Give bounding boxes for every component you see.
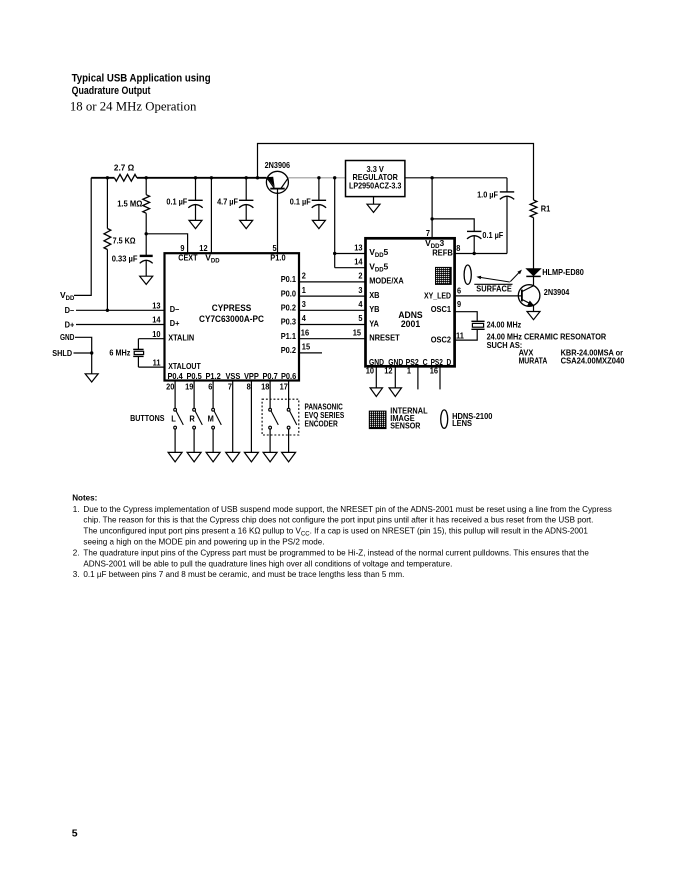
svg-text:16: 16 — [430, 366, 439, 376]
resistor R 7.5 Kohm — [106, 178, 108, 229]
svg-text:4: 4 — [358, 299, 362, 309]
svg-text:3: 3 — [302, 299, 306, 309]
wire LED cathode to 2N3904 collector — [533, 276, 535, 285]
svg-text:6: 6 — [457, 285, 461, 295]
svg-text:NRESET: NRESET — [369, 333, 400, 343]
svg-text:SENSOR: SENSOR — [390, 420, 420, 430]
capacitor C 0.1 uF (left) — [195, 178, 197, 200]
wire 5V rail left segment — [91, 177, 114, 179]
svg-text:BUTTONS: BUTTONS — [130, 413, 165, 423]
svg-text:12: 12 — [384, 366, 393, 376]
ground below 0.33uF — [140, 276, 153, 284]
svg-text:P0.6: P0.6 — [281, 371, 297, 381]
ground below VPP — [244, 452, 258, 462]
svg-text:16: 16 — [301, 327, 310, 337]
svg-text:MURATA: MURATA — [519, 356, 548, 366]
svg-text:XB: XB — [369, 290, 379, 300]
svg-text:20: 20 — [166, 381, 175, 391]
junction D- / 7.5K — [106, 309, 109, 312]
junction 3.3V line / 0.1uF — [317, 176, 320, 179]
svg-text:ADNS-2001 will be able to pull: ADNS-2001 will be able to pull the quadr… — [83, 559, 452, 568]
svg-text:D–: D– — [65, 305, 75, 315]
svg-text:14: 14 — [354, 257, 363, 267]
transistor Q 2N3904 — [518, 285, 540, 307]
svg-text:4.7 µF: 4.7 µF — [217, 197, 238, 207]
svg-text:13: 13 — [354, 242, 363, 252]
svg-text:0.33 µF: 0.33 µF — [112, 253, 138, 263]
svg-text:5: 5 — [72, 827, 78, 839]
svg-text:1: 1 — [302, 285, 306, 295]
svg-text:CY7C63000A-PC: CY7C63000A-PC — [199, 313, 264, 324]
svg-text:YA: YA — [369, 318, 379, 328]
wire P0.2 stub pin 15 — [299, 352, 322, 354]
svg-text:LENS: LENS — [452, 418, 472, 428]
svg-text:18 or 24 MHz Operation: 18 or 24 MHz Operation — [70, 100, 196, 114]
junction rail / 4.7uF — [245, 176, 248, 179]
svg-text:2N3904: 2N3904 — [544, 287, 570, 297]
LED D HLMP-ED80 — [526, 269, 540, 276]
encoder dashed box — [262, 399, 299, 435]
svg-text:CSA24.00MXZ040: CSA24.00MXZ040 — [561, 356, 625, 366]
crystal Y 6 MHz — [137, 339, 139, 350]
wire regulator 3.3V output — [405, 177, 507, 179]
wire 5V rail right segment — [137, 177, 267, 179]
resistor R 1.5 Mohm — [145, 178, 147, 195]
svg-text:P1.0: P1.0 — [270, 252, 286, 262]
ground below 0.1uF left — [189, 220, 202, 228]
svg-text:MODE/XA: MODE/XA — [369, 276, 404, 286]
svg-text:Typical USB Application using: Typical USB Application using — [72, 73, 211, 85]
capacitor C 1.0 uF — [506, 178, 508, 192]
svg-text:VPP: VPP — [244, 371, 259, 381]
svg-text:1.5 MΩ: 1.5 MΩ — [117, 198, 142, 208]
wire GND — [75, 337, 92, 374]
regulator U 3.3V LP2950ACZ-3.3 — [346, 161, 405, 197]
wire REFB pin 8 — [455, 253, 507, 255]
svg-text:8: 8 — [456, 243, 460, 253]
svg-text:D–: D– — [170, 304, 180, 314]
ground below GND SHLD — [85, 374, 98, 382]
svg-text:P0.2: P0.2 — [281, 303, 297, 313]
surface label with overline — [474, 283, 512, 285]
svg-text:XTALIN: XTALIN — [168, 332, 194, 342]
svg-text:7: 7 — [228, 381, 232, 391]
junction 3.3V line / VDD5 branch — [333, 176, 336, 179]
svg-text:L: L — [171, 413, 176, 423]
svg-text:LP2950ACZ-3.3: LP2950ACZ-3.3 — [349, 181, 402, 191]
svg-text:P0.1: P0.1 — [281, 274, 297, 284]
junction rail / 1.5M — [145, 176, 148, 179]
svg-text:11: 11 — [153, 357, 161, 367]
svg-text:P1.1: P1.1 — [281, 331, 297, 341]
svg-text:9: 9 — [457, 299, 461, 309]
svg-text:OSC2: OSC2 — [431, 334, 452, 344]
wire P1.1 to NRESET — [299, 338, 366, 340]
wire VDD pin 12 — [210, 178, 212, 253]
svg-text:18: 18 — [261, 381, 270, 391]
svg-text:P0.5: P0.5 — [186, 371, 202, 381]
arrow to surface oval — [481, 278, 510, 283]
svg-text:2001: 2001 — [401, 318, 420, 329]
junction rail / 0.1uF — [194, 176, 197, 179]
wire XY_LED pin 6 to 2N3904 base — [455, 295, 522, 297]
junction GND / SHLD — [90, 351, 93, 354]
ground below VSS — [226, 452, 240, 462]
ceramic resonator 24.00 MHz — [471, 320, 484, 322]
svg-text:17: 17 — [280, 381, 289, 391]
wire regulator ground stub — [373, 197, 375, 205]
svg-text:XTALOUT: XTALOUT — [168, 361, 201, 371]
ground below adns pin 12 — [389, 388, 401, 397]
svg-text:14: 14 — [152, 315, 161, 325]
junction node 1.5M / 0.33uF — [145, 232, 148, 235]
ground below 4.7uF — [240, 220, 253, 228]
wire adns GND pin 12 — [394, 366, 396, 388]
legend lens HDNS-2100 — [441, 410, 448, 428]
capacitor C 0.1 uF (REFB) — [467, 230, 481, 232]
wire D- — [76, 309, 165, 311]
junction 3.3V / pin 7 line — [430, 176, 433, 179]
svg-text:D+: D+ — [65, 319, 75, 329]
svg-text:5: 5 — [358, 313, 362, 323]
lens surface oval — [464, 265, 471, 284]
wire node to CEXT pin 9 — [146, 234, 187, 253]
svg-text:8: 8 — [247, 381, 251, 391]
svg-text:10: 10 — [366, 366, 375, 376]
svg-text:XY_LED: XY_LED — [424, 290, 451, 300]
svg-text:P0.0: P0.0 — [281, 288, 297, 298]
legend internal image sensor icon — [369, 411, 387, 430]
junction rail / 7.5K — [106, 176, 109, 179]
svg-text:VSS: VSS — [225, 371, 240, 381]
svg-text:2.: 2. — [73, 548, 80, 557]
wire XTALOUT pin 11 — [138, 366, 164, 368]
wire VDD feed — [74, 178, 91, 296]
wire R1 to LED — [533, 218, 535, 269]
wire adns PS2_D pin 16 — [439, 366, 441, 389]
junction rail / VDD pin 12 — [210, 176, 213, 179]
svg-text:CYPRESS: CYPRESS — [212, 302, 251, 313]
svg-text:HLMP-ED80: HLMP-ED80 — [542, 267, 584, 277]
svg-text:7.5 KΩ: 7.5 KΩ — [113, 236, 136, 246]
ground below 0.1uF transistor — [312, 220, 325, 228]
wire P0.2 to YB — [299, 309, 366, 311]
wire P0.3 to YA — [299, 324, 366, 326]
wire adns GND pin 10 — [375, 366, 377, 388]
svg-text:6 MHz: 6 MHz — [109, 348, 130, 358]
capacitor C 4.7 uF — [245, 178, 247, 200]
svg-text:4: 4 — [302, 313, 306, 323]
svg-text:0.1 µF between pins 7 and 8 mu: 0.1 µF between pins 7 and 8 must be cera… — [83, 570, 404, 579]
svg-text:SURFACE: SURFACE — [476, 284, 512, 294]
switch on P0.6 encoder — [288, 381, 290, 409]
svg-text:The quadrature input pins of t: The quadrature input pins of the Cypress… — [83, 548, 589, 557]
ground below adns pin 10 — [370, 388, 382, 397]
wire OSC1 pin 9 — [455, 312, 478, 321]
svg-text:P0.4: P0.4 — [167, 371, 183, 381]
wire XTALIN pin 10 — [138, 338, 164, 340]
wire P0.1 to MODE/XA — [299, 281, 366, 283]
svg-text:D+: D+ — [170, 318, 180, 328]
wire SHLD — [74, 352, 92, 354]
wire OSC2 pin 11 — [455, 330, 478, 341]
capacitor C 0.33 uF — [145, 234, 147, 256]
wire adns PS2_C pin 1 — [417, 366, 419, 389]
wire 2N3906 base to P1.0 pin 5 — [277, 189, 279, 254]
svg-text:0.1 µF: 0.1 µF — [482, 230, 503, 240]
svg-text:YB: YB — [369, 304, 379, 314]
switch L on P0.4 — [174, 381, 176, 409]
svg-text:15: 15 — [302, 342, 311, 352]
svg-text:ENCODER: ENCODER — [305, 418, 338, 428]
svg-text:P0.7: P0.7 — [262, 371, 278, 381]
capacitor C 0.1 uF (at transistor) — [318, 178, 320, 200]
junction VDD5 / pin 13 — [333, 252, 336, 255]
svg-text:3.: 3. — [73, 570, 80, 579]
svg-text:GND: GND — [60, 332, 74, 342]
junction REFB / 0.1uF — [473, 252, 476, 255]
svg-text:0.1 µF: 0.1 µF — [290, 197, 311, 207]
svg-text:11: 11 — [456, 330, 464, 340]
IC U ADNS-2001 box — [366, 238, 455, 366]
svg-text:3: 3 — [358, 285, 362, 295]
svg-text:P1.2: P1.2 — [205, 371, 221, 381]
svg-text:2: 2 — [358, 271, 362, 281]
svg-text:7: 7 — [426, 228, 430, 238]
svg-text:13: 13 — [152, 301, 161, 311]
svg-text:1: 1 — [407, 366, 411, 376]
svg-text:SUCH AS:: SUCH AS: — [487, 340, 523, 350]
switch R on P0.5 — [193, 381, 195, 409]
wire branch to REFB 0.1uF — [432, 219, 474, 231]
ground below regulator — [367, 204, 380, 212]
wire VPP to ground — [250, 381, 252, 453]
svg-text:2.7 Ω: 2.7 Ω — [114, 162, 134, 172]
adns internal image sensor icon — [435, 267, 452, 285]
wire D+ — [76, 324, 165, 326]
IC U CYPRESS CY7C63000A-PC box — [165, 253, 300, 380]
wire VSS to ground — [232, 381, 234, 453]
switch on P0.7 encoder — [269, 381, 271, 409]
junction pin7 line / refb cap branch — [430, 217, 433, 220]
svg-text:R: R — [189, 413, 194, 423]
svg-text:SHLD: SHLD — [52, 348, 72, 358]
wire 2N3906 collector to regulator — [288, 177, 345, 179]
arrow to LED — [510, 273, 518, 282]
svg-text:15: 15 — [353, 327, 362, 337]
resistor R 2.7 ohm — [114, 174, 136, 181]
svg-text:2: 2 — [302, 271, 306, 281]
junction rail / top 5V line — [256, 176, 259, 179]
svg-text:10: 10 — [152, 329, 161, 339]
svg-text:M: M — [208, 413, 214, 423]
svg-text:CEXT: CEXT — [178, 252, 198, 262]
svg-text:Notes:: Notes: — [72, 494, 97, 503]
svg-text:1.0 µF: 1.0 µF — [477, 190, 498, 200]
svg-text:Due to the Cypress implementat: Due to the Cypress implementation of USB… — [83, 505, 611, 514]
svg-text:R1: R1 — [541, 204, 551, 214]
resistor R1 — [530, 200, 537, 218]
svg-text:seeing a high on the MODE pin: seeing a high on the MODE pin and poweri… — [83, 538, 324, 547]
wire VDD5 branch to pins 13 and 14 — [334, 178, 336, 268]
svg-text:Quadrature Output: Quadrature Output — [72, 85, 151, 97]
wire P0.0 to XB — [299, 295, 366, 297]
svg-text:P0.2: P0.2 — [281, 345, 297, 355]
svg-text:1.: 1. — [73, 505, 80, 514]
wire top 5V line to R1 — [258, 144, 534, 201]
svg-text:0.1 µF: 0.1 µF — [166, 197, 187, 207]
wire 2N3904 emitter to ground — [533, 305, 535, 311]
svg-text:6: 6 — [208, 381, 212, 391]
transistor Q 2N3906 — [266, 171, 288, 193]
svg-text:REFB: REFB — [432, 247, 453, 257]
svg-text:24.00 MHz: 24.00 MHz — [487, 319, 522, 329]
svg-text:19: 19 — [185, 381, 194, 391]
wire 3.3V to ADNS pin 7 — [431, 178, 433, 239]
svg-text:OSC1: OSC1 — [431, 304, 452, 314]
switch M on P1.2 — [212, 381, 214, 409]
svg-text:chip. The reason for this is t: chip. The reason for this is that the Cy… — [83, 516, 593, 525]
ground below 2N3904 — [527, 312, 540, 320]
svg-text:2N3906: 2N3906 — [265, 160, 291, 170]
svg-text:P0.3: P0.3 — [281, 317, 297, 327]
